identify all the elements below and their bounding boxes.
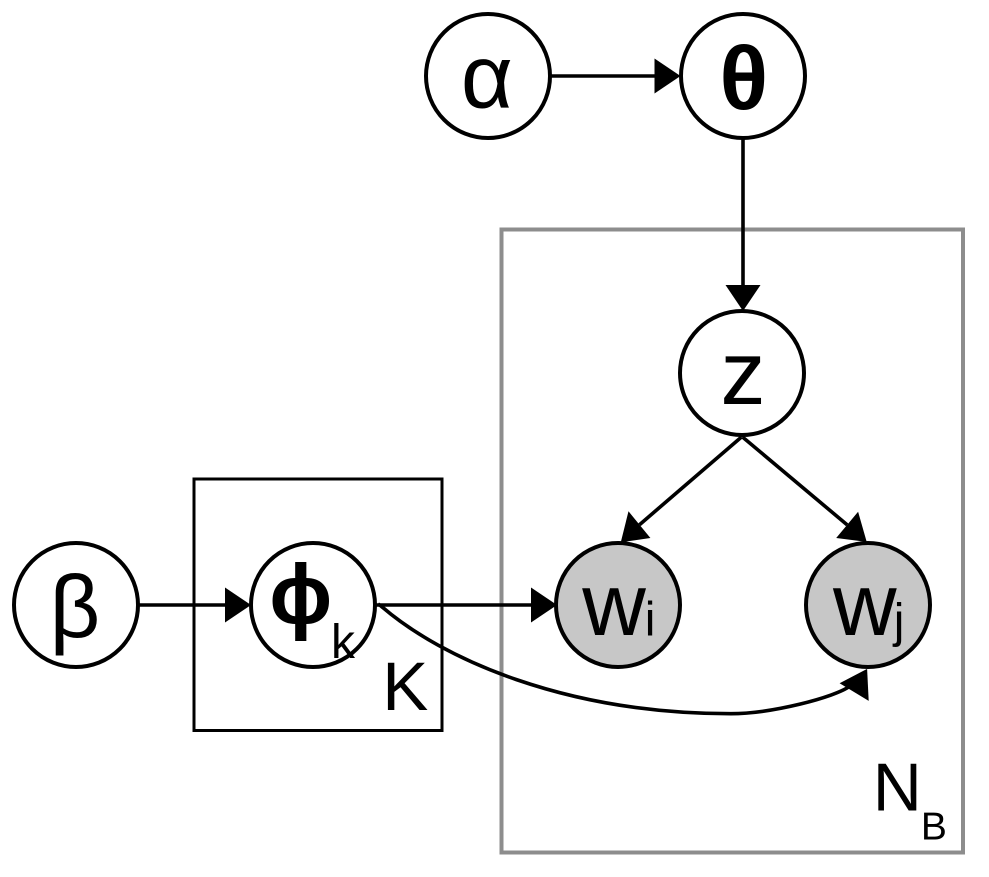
svg-text:j: j (892, 595, 905, 648)
svg-text:B: B (921, 806, 947, 849)
plate K (194, 479, 442, 731)
node theta (681, 14, 805, 138)
wire arrow phi->w_i (375, 588, 557, 623)
node beta (14, 543, 138, 667)
svg-text:w: w (832, 555, 897, 654)
svg-text:θ: θ (720, 30, 769, 130)
wire arrow beta->phi (138, 588, 251, 623)
node phi_k (251, 543, 375, 669)
plate label N_B (873, 750, 947, 849)
svg-text:ϕ: ϕ (269, 548, 332, 642)
plate N_B (502, 230, 964, 853)
wire arrow alpha->theta (550, 59, 681, 94)
wire arrow theta->z (726, 138, 761, 311)
svg-text:k: k (331, 616, 356, 669)
svg-text:N: N (873, 750, 922, 826)
svg-text:α: α (461, 28, 513, 128)
svg-text:i: i (645, 594, 656, 647)
wire arrow z->w_i (621, 437, 742, 542)
svg-text:K: K (382, 648, 428, 725)
wire arrow z->w_j (743, 437, 867, 542)
node z (680, 311, 804, 435)
wire curved arrow phi->w_j (378, 604, 869, 714)
svg-text:w: w (581, 555, 646, 654)
svg-text:β: β (50, 557, 101, 656)
node w_j (observed) (806, 543, 930, 667)
svg-text:z: z (721, 324, 766, 424)
node w_i (observed) (556, 543, 680, 667)
node alpha (426, 14, 550, 138)
